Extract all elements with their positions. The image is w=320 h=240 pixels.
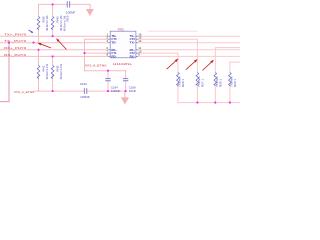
capacitor C164 — [105, 79, 110, 81]
wire C164 top stub — [107, 71, 109, 79]
wire TX+ right row pin16 — [138, 35, 240, 37]
node right rail / R45 — [214, 102, 216, 104]
capacitor 100NF top — [67, 1, 70, 7]
wire R43 bottom lead — [177, 83, 179, 103]
wire caps top rail — [85, 70, 126, 72]
wire CT1 to pin7 — [85, 52, 109, 54]
annotation arrow A5 — [202, 60, 214, 71]
label R41 — [42, 64, 49, 80]
wire top rail right segment to gnd corner — [70, 4, 90, 9]
label R40 value — [56, 15, 63, 31]
wire riser top R39 — [38, 4, 40, 16]
annotation arrow A4 — [186, 59, 198, 70]
node bottom rail / C164 — [107, 90, 109, 92]
label R44 — [197, 76, 204, 87]
node top rail / C164 stub — [107, 70, 109, 72]
wire riser top R40 — [52, 4, 54, 16]
svg-text:100NF: 100NF — [80, 95, 90, 99]
resistor R46 — [229, 73, 232, 86]
label R45 — [215, 76, 222, 87]
svg-text:R26 1: R26 1 — [181, 79, 185, 87]
wire RX+_PHY0 left row — [0, 49, 108, 51]
resistor R44 — [196, 73, 199, 86]
node CT1 tee — [83, 52, 85, 54]
svg-text:RX+_PHY0: RX+_PHY0 — [4, 46, 27, 50]
svg-text:R28 1: R28 1 — [218, 79, 222, 87]
wire C166 top stub — [125, 71, 127, 79]
node bottom rail / C166 gnd — [125, 90, 127, 92]
wire RX- right row pin9 — [138, 55, 240, 57]
svg-text:TR2: TR2 — [117, 28, 124, 32]
svg-text:3V3_A_ETH0: 3V3_A_ETH0 — [85, 64, 107, 68]
blue annotation mark — [29, 30, 34, 33]
wire R44 bottom lead — [196, 83, 198, 103]
wire CT2 pin10 elbow down to R43 — [138, 53, 178, 72]
ground arrow top — [86, 9, 94, 16]
wire R45 bottom lead — [214, 83, 216, 103]
svg-text:TX+_PHY0: TX+_PHY0 — [4, 33, 27, 37]
junction node dots — [8, 3, 231, 103]
svg-text:TX-: TX- — [130, 41, 135, 45]
resistor R40 — [51, 17, 54, 30]
node right rail / R44 — [196, 102, 198, 104]
wire faint strap above TX+ — [148, 30, 197, 32]
wire top rail left segment — [39, 3, 67, 5]
label R39 value — [42, 15, 49, 31]
wire unused pair net to R45 — [215, 48, 240, 73]
node top rail / R40 — [52, 3, 54, 5]
svg-text:R19: R19 — [66, 15, 70, 21]
wire riser bottom R41 — [38, 50, 40, 66]
wire CT0 elbow to pin2 — [85, 38, 109, 40]
resistor R45 — [214, 73, 217, 86]
wire C166 bottom stub — [125, 81, 127, 91]
wire TX+_PHY0 left row — [0, 35, 108, 37]
annotation arrow A2 — [56, 38, 67, 49]
svg-text:H1102NL: H1102NL — [113, 62, 133, 66]
resistor R43 — [177, 73, 180, 86]
wire 3V3_A_ETH0 bottom rail left of C162 — [34, 90, 84, 92]
capacitor C166 — [123, 79, 128, 81]
label R46 — [230, 76, 237, 87]
svg-text:49.9ohm 1%: 49.9ohm 1% — [45, 15, 49, 31]
wire center-tap vertical 3V3_A_ETH0 — [84, 39, 86, 70]
node RX- / R42 — [52, 55, 54, 57]
node bottom rail / R42 lead — [52, 90, 54, 92]
svg-text:10UF: 10UF — [129, 89, 137, 93]
resistor R42 — [51, 66, 54, 79]
node right rail / R46 — [229, 102, 231, 104]
svg-text:RX-: RX- — [130, 54, 135, 58]
resistor R41 — [37, 66, 40, 79]
wire unused pair net to R46 — [230, 62, 240, 72]
pin stubs left — [108, 36, 137, 56]
ground arrow bottom — [121, 91, 129, 104]
wire TX- right row pin14 — [138, 42, 240, 44]
svg-text:R29 1: R29 1 — [233, 79, 237, 87]
label C-top vertical text — [62, 15, 69, 31]
node TX- / exit wire — [8, 42, 10, 44]
capacitor C162 — [84, 88, 87, 94]
svg-text:RX-_PHY0: RX-_PHY0 — [4, 53, 27, 57]
svg-text:49.9ohm 1%: 49.9ohm 1% — [59, 64, 63, 80]
wire TX+ exit vertical to bottom left — [0, 43, 9, 102]
svg-text:TD-: TD- — [111, 41, 116, 45]
node TX- annotation dot — [32, 42, 34, 44]
svg-text:TX-_PHY0: TX-_PHY0 — [4, 39, 27, 43]
svg-text:100NF: 100NF — [111, 89, 121, 93]
svg-text:14: 14 — [138, 39, 142, 43]
wire TX-_PHY0 left row — [0, 42, 108, 44]
transformer TR2 box — [110, 31, 136, 58]
wire bottom rail right of C162 — [87, 90, 125, 92]
label R43 — [178, 76, 185, 87]
wire CT3 pin15 elbow down to R44 — [138, 39, 198, 72]
wire R46 bottom lead — [229, 83, 231, 103]
wire bottom right rail — [178, 102, 240, 104]
resistor R39 — [37, 17, 40, 30]
annotation arrow A3 — [167, 59, 179, 70]
svg-text:49.9ohm 1%: 49.9ohm 1% — [45, 64, 49, 80]
svg-text:R27 1: R27 1 — [200, 79, 204, 87]
wire RX+ right row pin11 — [138, 49, 240, 51]
svg-text:100NF: 100NF — [66, 11, 76, 15]
svg-text:RD-: RD- — [111, 54, 116, 58]
svg-text:3V3_A_ETH0: 3V3_A_ETH0 — [14, 90, 34, 94]
node RX+ / R41 — [37, 49, 39, 51]
label R42 — [56, 64, 63, 80]
svg-text:C162: C162 — [80, 82, 87, 86]
wire riser bottom R42 — [52, 56, 54, 65]
wire C164 bottom stub — [107, 81, 109, 91]
annotation arrow A1 — [37, 43, 51, 48]
node TX+ / R40 riser — [52, 35, 54, 37]
wire RX-_PHY0 left row — [0, 55, 108, 57]
